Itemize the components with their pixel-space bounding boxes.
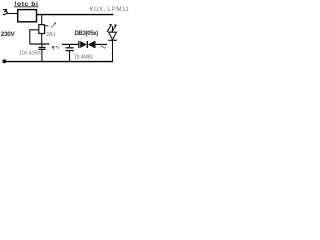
dashed light arrow [45,22,56,27]
terminal circle [3,60,6,63]
resistor R1 [39,25,45,34]
capacitor C1 [39,44,46,62]
power supply box U1 [18,10,37,22]
wire: lead below resistor R1 [41,34,43,45]
wire: mid rail segment 3 [95,43,107,45]
LED D2 arrows [107,24,117,32]
wire: bracket from resistor left [30,30,38,44]
svg-text:230V: 230V [1,31,16,38]
LED D2 body [108,32,117,40]
wire: mid rail segment 2 [62,43,79,45]
wire plug to box [7,13,18,15]
underline of box title [14,6,39,8]
diode D1 [78,41,95,48]
squiggle under wire [101,46,106,48]
svg-text:1b 4MBz: 1b 4MBz [74,55,94,61]
wire: top rail [37,14,114,16]
wire: LED cathode lead down [112,26,114,32]
svg-text:10n 41Bn: 10n 41Bn [19,50,41,56]
svg-text:DB3(05x): DB3(05x) [75,31,99,37]
wire: mid rail segment 1 [30,43,50,45]
wire: lead down to resistor R1 [41,15,43,25]
svg-text:2A.t: 2A.t [46,32,56,38]
mains plug P1 [3,10,7,16]
svg-text:KUX, LPM11: KUX, LPM11 [90,6,130,13]
capacitor C2 [66,44,74,62]
wire: bottom rail [6,61,113,63]
tick marks in rail gap [52,45,59,49]
